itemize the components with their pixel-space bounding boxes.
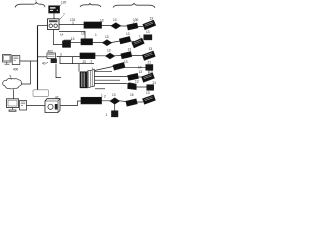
svg-text:13: 13: [150, 17, 154, 21]
svg-text:120: 120: [61, 1, 67, 5]
server D1: [49, 6, 60, 13]
row3: zone box W2: [80, 53, 95, 59]
svg-text:14: 14: [60, 32, 64, 36]
amp module R7: [126, 99, 137, 106]
speaker R3: [142, 51, 155, 60]
svg-text:7: 7: [63, 13, 65, 17]
label 210: [95, 88, 105, 90]
svg-text:131: 131: [70, 18, 76, 22]
wall unit R4b: [146, 65, 153, 71]
wire E1 to W2: [57, 56, 81, 58]
amp module R4: [113, 63, 125, 71]
svg-text:13: 13: [81, 32, 85, 36]
monitor M1: [3, 55, 12, 63]
wire D2 to bus: [38, 25, 48, 27]
row4 wire: [95, 67, 146, 71]
wire F1 to W1: [71, 42, 82, 44]
svg-text:15: 15: [130, 93, 134, 97]
svg-text:20: 20: [83, 60, 87, 64]
svg-text:2: 2: [104, 95, 106, 99]
keypad diamond R1: [111, 23, 121, 29]
speaker R1: [143, 20, 156, 30]
svg-text:1: 1: [106, 113, 108, 117]
svg-text:13: 13: [135, 79, 139, 83]
svg-text:400: 400: [13, 68, 19, 72]
zone box R6: [128, 83, 136, 90]
amp module R1: [127, 23, 138, 30]
keypad diamond R7: [110, 98, 120, 104]
keypad diamond R3: [106, 53, 115, 59]
amp F1: [63, 41, 71, 47]
wall unit R2b: [144, 35, 152, 40]
svg-text:14: 14: [138, 66, 142, 70]
bus bottom box: [33, 90, 49, 97]
amp module R2: [119, 36, 130, 43]
svg-text:13: 13: [124, 60, 128, 64]
wire D2 second out to W1: [59, 31, 85, 38]
bus trunk: [37, 26, 39, 97]
svg-text:130: 130: [133, 18, 139, 22]
wire drop to F2: [56, 64, 61, 78]
wire D2 down to F1: [54, 30, 63, 45]
wall unit R6b: [147, 85, 154, 90]
junction tick: [60, 53, 62, 57]
leader for 120: [60, 5, 62, 7]
row7: zone box W8: [81, 97, 102, 104]
svg-text:13: 13: [149, 47, 153, 51]
matrix unit left: [80, 72, 87, 88]
pc tower T1: [12, 56, 20, 65]
disc player E2: [45, 99, 60, 113]
svg-text:13: 13: [146, 91, 150, 95]
brace 3 (top-right): [113, 3, 155, 8]
wire player to W8: [60, 101, 81, 106]
svg-text:13: 13: [139, 70, 143, 74]
svg-text:21: 21: [148, 60, 152, 64]
svg-text:13: 13: [128, 48, 132, 52]
wire M1 to bus: [20, 60, 38, 62]
speaker R5: [142, 73, 155, 82]
speaker R7: [143, 95, 156, 104]
wire mid drop: [60, 57, 94, 64]
svg-text:1: 1: [101, 94, 103, 98]
amp module R5: [128, 73, 139, 80]
zone box B1: [84, 22, 102, 28]
svg-text:13: 13: [113, 18, 117, 22]
wire M2 to player: [27, 105, 46, 107]
module E1b: [51, 59, 57, 63]
wire diamond down: [114, 104, 116, 111]
row7 wire: [102, 101, 144, 102]
svg-text:13: 13: [107, 49, 111, 53]
row6 wire: [95, 80, 147, 87]
svg-text:13: 13: [149, 70, 153, 74]
sub unit R7b: [112, 111, 118, 117]
wire bus to E1: [38, 56, 48, 58]
row2 wire: [93, 41, 135, 43]
svg-text:21: 21: [153, 81, 157, 85]
amp module R3: [121, 52, 132, 59]
svg-text:13: 13: [71, 37, 75, 41]
row1 wire: [59, 25, 143, 27]
cloud (internet): [3, 78, 22, 89]
svg-text:2: 2: [91, 60, 93, 64]
receiver D2: [48, 19, 60, 30]
speaker R2: [132, 38, 144, 48]
matrix unit right: [88, 70, 95, 88]
row5 wire: [95, 76, 142, 79]
monitor M2: [7, 99, 19, 108]
brace 5 (top-left): [15, 2, 45, 7]
svg-text:13: 13: [126, 32, 130, 36]
svg-text:13: 13: [105, 35, 109, 39]
svg-text:13: 13: [146, 30, 150, 34]
brace 2 (top-middle): [80, 3, 101, 7]
row3 wire: [95, 55, 143, 57]
svg-text:40: 40: [42, 62, 46, 66]
svg-text:1: 1: [139, 35, 141, 39]
wire D1-D2: [53, 13, 55, 19]
label 131 tick: [72, 22, 74, 25]
fan wire up-diagonal: [95, 67, 114, 71]
leader for 7: [59, 17, 62, 20]
switch E1: [47, 53, 56, 59]
row2: zone box W1: [81, 39, 93, 45]
keypad diamond R2: [103, 40, 112, 46]
wire drop x72: [72, 57, 74, 64]
svg-text:13: 13: [112, 93, 116, 97]
svg-text:1: 1: [95, 33, 97, 37]
wire cloud to riser: [21, 61, 30, 84]
pc tower T2: [20, 101, 27, 111]
wire drop to cluster: [78, 64, 80, 72]
fan wire r4: [95, 70, 96, 72]
wire cloud down to M2: [13, 90, 15, 99]
